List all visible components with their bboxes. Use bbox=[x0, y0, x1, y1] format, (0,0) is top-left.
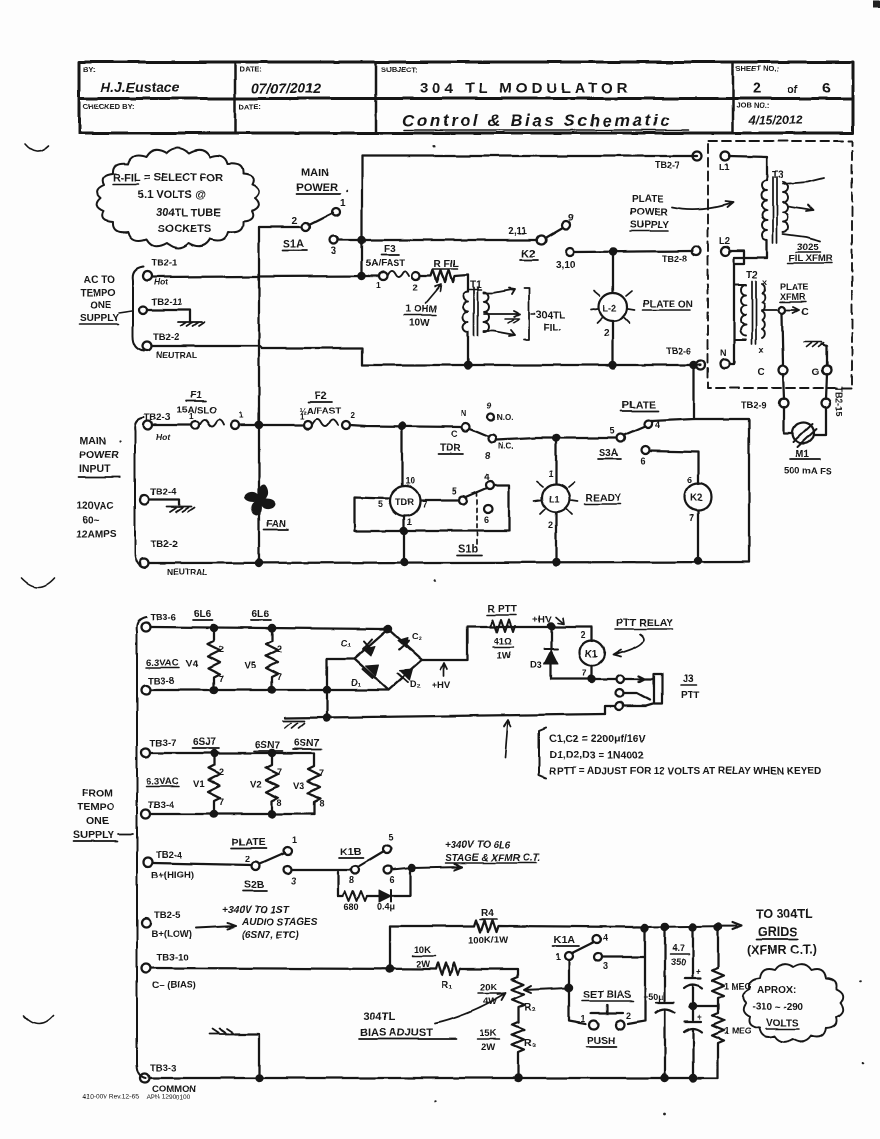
node TB2-6 terminal bbox=[666, 346, 706, 370]
node junction cap 50u bus bbox=[662, 1075, 668, 1081]
resistor R1 bbox=[412, 945, 460, 991]
label +340V to 1st audio bbox=[222, 905, 318, 941]
svg-text:FAN: FAN bbox=[266, 519, 286, 530]
svg-text:2: 2 bbox=[350, 411, 355, 420]
svg-text:10W: 10W bbox=[409, 318, 430, 329]
node junction L1 branch bbox=[553, 435, 559, 441]
svg-text:D3: D3 bbox=[530, 660, 542, 671]
svg-text:+HV: +HV bbox=[432, 680, 451, 691]
node junction V2 bottom bbox=[269, 811, 275, 817]
node junction caps 4.7 bbox=[690, 924, 696, 930]
node junction L2 bottom bbox=[610, 362, 616, 368]
svg-text:-310 ~ -290: -310 ~ -290 bbox=[752, 1002, 804, 1013]
wire TB2-3 to F1 bbox=[153, 424, 191, 426]
node junction L1/neutral bbox=[553, 559, 559, 565]
wire TDR-1 down bbox=[403, 516, 405, 562]
wire TB2-1 hot to F3 bbox=[152, 276, 379, 277]
svg-text:304TL: 304TL bbox=[536, 310, 565, 321]
svg-text:ONE: ONE bbox=[90, 300, 112, 311]
svg-text:6SN7: 6SN7 bbox=[255, 740, 280, 751]
svg-text:½A/FAST: ½A/FAST bbox=[299, 406, 341, 417]
svg-text:9: 9 bbox=[487, 402, 492, 411]
svg-text:TB2-9: TB2-9 bbox=[741, 400, 766, 410]
svg-text:4: 4 bbox=[603, 933, 608, 943]
ground (TB2-4) bbox=[167, 507, 194, 512]
svg-text:6SN7: 6SN7 bbox=[294, 738, 319, 749]
wire T2 CT down to C terminal bbox=[782, 314, 783, 365]
node junction bleeder top bbox=[715, 924, 721, 930]
label plate xfmr bbox=[780, 282, 809, 302]
wire bridge +HV output bbox=[422, 627, 592, 660]
svg-text:2: 2 bbox=[277, 644, 282, 654]
node TB2-5 terminal (B+ low) bbox=[142, 910, 192, 940]
node junction T1 bottom rail bbox=[465, 362, 471, 368]
svg-text:Control & Bias Schematic: Control & Bias Schematic bbox=[402, 111, 672, 130]
svg-text:7: 7 bbox=[319, 768, 324, 778]
svg-text:1: 1 bbox=[300, 412, 305, 421]
svg-text:TB2-15: TB2-15 bbox=[834, 386, 844, 416]
wire heater top rail bbox=[151, 627, 388, 629]
node junction bridge top bbox=[385, 626, 391, 632]
wire L2 terminal down to T2 bbox=[729, 251, 744, 264]
svg-text:TB2-8: TB2-8 bbox=[662, 254, 687, 264]
node junction V1 top bbox=[211, 750, 217, 756]
node TB3-7 terminal bbox=[142, 738, 177, 758]
wire cap/bleeder tie bbox=[693, 1005, 718, 1007]
wire F1 to F2 bbox=[239, 424, 304, 426]
svg-text:5A/FAST: 5A/FAST bbox=[366, 258, 405, 269]
svg-text:8: 8 bbox=[349, 875, 354, 885]
relay contacts K1A bbox=[553, 933, 608, 971]
svg-text:TB2-5: TB2-5 bbox=[154, 910, 181, 921]
svg-text:C₂: C₂ bbox=[412, 632, 423, 642]
arrow TB2-5 bbox=[196, 923, 236, 929]
capacitor C2 bbox=[399, 641, 410, 650]
fuse F2 bbox=[299, 391, 355, 429]
label from tempo one supply bbox=[73, 787, 114, 841]
capacitor 4.7/350 (upper) bbox=[670, 927, 702, 1020]
svg-text:120VAC: 120VAC bbox=[77, 501, 114, 512]
svg-text:NEUTRAL: NEUTRAL bbox=[167, 567, 208, 577]
svg-text:PLATE: PLATE bbox=[780, 282, 809, 292]
transformer T1 bbox=[463, 275, 565, 365]
resistor R3 15K bbox=[477, 1022, 536, 1078]
wire TB2-11 to ground bbox=[147, 310, 190, 321]
svg-text:R4: R4 bbox=[481, 908, 494, 919]
svg-text:FIL.: FIL. bbox=[543, 322, 561, 333]
note cloud (R-FIL select) bbox=[97, 148, 259, 248]
wire bottom rail (neutral to TB2-6) bbox=[362, 364, 701, 366]
svg-text:+340V TO 6L6: +340V TO 6L6 bbox=[445, 840, 511, 851]
svg-text:NEUTRAL: NEUTRAL bbox=[156, 350, 197, 360]
capacitor 4.7/350 (lower) bbox=[684, 1012, 702, 1078]
svg-text:TB2-6: TB2-6 bbox=[666, 346, 691, 356]
label 304TL bias adjust bbox=[360, 1011, 433, 1039]
svg-text:PTT RELAY: PTT RELAY bbox=[616, 617, 673, 629]
svg-text:2,11: 2,11 bbox=[508, 226, 527, 237]
svg-text:L1: L1 bbox=[549, 494, 560, 504]
wire ground to G terminal bbox=[822, 344, 827, 365]
wire S2B to K1B bbox=[291, 869, 351, 871]
svg-text:1: 1 bbox=[239, 411, 244, 420]
node junction L2 branch bbox=[610, 249, 616, 255]
svg-text:SUPPLY: SUPPLY bbox=[80, 313, 119, 324]
svg-text:1W: 1W bbox=[497, 650, 511, 661]
node TB3-4 terminal bbox=[142, 800, 176, 819]
node junction D3 tap bbox=[548, 623, 554, 629]
node TB2-8 terminal bbox=[662, 247, 701, 265]
resistor R4 bbox=[390, 908, 644, 946]
svg-text:POWER: POWER bbox=[296, 182, 338, 194]
svg-text:6: 6 bbox=[390, 875, 395, 885]
ground (TB2-11) bbox=[178, 322, 205, 326]
timer TDR coil bbox=[378, 426, 427, 527]
node TB3-3 terminal bbox=[141, 1063, 197, 1095]
svg-text:8: 8 bbox=[485, 451, 490, 461]
svg-text:C₁: C₁ bbox=[341, 638, 351, 648]
diode D3 bbox=[530, 626, 558, 679]
svg-text:1 MEG: 1 MEG bbox=[724, 1026, 752, 1036]
svg-text:1: 1 bbox=[581, 1014, 586, 1024]
brace TB3 terminals bbox=[137, 617, 146, 1078]
wire L1 to T3 bbox=[729, 156, 767, 180]
potentiometer R2 20K bbox=[478, 977, 568, 1022]
svg-text:TB2-3: TB2-3 bbox=[144, 412, 170, 423]
wire heater bottom rail bbox=[151, 689, 388, 691]
svg-text:K1B: K1B bbox=[340, 846, 361, 858]
svg-text:R₃: R₃ bbox=[524, 1038, 536, 1049]
svg-text:1 OHM: 1 OHM bbox=[405, 304, 437, 315]
svg-text:2: 2 bbox=[292, 216, 298, 227]
svg-text:VOLTS: VOLTS bbox=[766, 1018, 799, 1029]
svg-text:TB2-7: TB2-7 bbox=[655, 160, 680, 170]
wire K1B to +340V arrow bbox=[392, 864, 462, 870]
node junction V4 top bbox=[211, 625, 217, 631]
node junction K2/neutral bbox=[695, 558, 701, 564]
svg-text:8: 8 bbox=[319, 799, 324, 809]
svg-text:6: 6 bbox=[484, 515, 489, 525]
label plate power supply bbox=[630, 194, 669, 231]
svg-text:7: 7 bbox=[277, 767, 282, 777]
wire common line with ground bbox=[285, 714, 605, 718]
svg-text:6L6: 6L6 bbox=[252, 609, 270, 620]
node junction hot/vertical bbox=[359, 273, 365, 279]
svg-text:N.C.: N.C. bbox=[498, 442, 514, 451]
transformer T2 (plate xfmr) bbox=[734, 270, 808, 355]
svg-text:SUBJECT:: SUBJECT: bbox=[381, 65, 418, 74]
ground (heater common) bbox=[283, 721, 305, 728]
title block frame bbox=[79, 62, 853, 133]
switch S2B (plate) bbox=[231, 835, 297, 891]
svg-text:JOB NO.:: JOB NO.: bbox=[736, 101, 769, 110]
wire K1A-1 down to push button bbox=[569, 960, 586, 1024]
svg-text:Hot: Hot bbox=[156, 432, 171, 442]
svg-text:SHEET NO.:: SHEET NO.: bbox=[736, 64, 779, 73]
transformer T3 bbox=[762, 170, 833, 264]
node junction caps bus bbox=[690, 1075, 696, 1081]
wire TB3-10 to R1 bbox=[151, 968, 436, 969]
wire TB2-4 to S2B bbox=[153, 863, 252, 865]
svg-text:TB2-2: TB2-2 bbox=[153, 332, 179, 343]
svg-text:6: 6 bbox=[640, 456, 645, 466]
svg-text:H.J.Eustace: H.J.Eustace bbox=[100, 79, 180, 95]
tube heater V5 bbox=[244, 628, 282, 690]
svg-text:N: N bbox=[720, 348, 727, 358]
svg-text:SOCKETS: SOCKETS bbox=[158, 223, 211, 235]
svg-text:N: N bbox=[461, 409, 467, 418]
wire main vertical (S1A down to neutral bus) bbox=[258, 227, 260, 563]
svg-text:K1A: K1A bbox=[554, 934, 575, 946]
svg-text:R PTT: R PTT bbox=[488, 604, 517, 615]
svg-text:F2: F2 bbox=[315, 391, 327, 402]
lamp L1 ready bbox=[534, 438, 578, 561]
node TB2-9 terminal bbox=[741, 399, 789, 411]
svg-text:2: 2 bbox=[753, 80, 761, 97]
svg-text:S1A: S1A bbox=[283, 238, 304, 250]
node TB2-1 terminal bbox=[143, 258, 179, 287]
svg-text:TO 304TL: TO 304TL bbox=[756, 907, 813, 921]
label +340V to 6L6 bbox=[445, 840, 541, 864]
node junction rail/S3A riser bbox=[691, 362, 697, 368]
svg-text:N.O.: N.O. bbox=[497, 413, 513, 422]
svg-text:2: 2 bbox=[413, 282, 418, 292]
node N terminal bbox=[720, 348, 730, 369]
svg-text:1: 1 bbox=[189, 412, 194, 421]
wire K1A-3 to rail riser bbox=[602, 928, 645, 957]
node TB3-10 terminal (C- bias) bbox=[142, 952, 196, 991]
svg-text:500 mA FS: 500 mA FS bbox=[784, 466, 832, 477]
svg-text:1: 1 bbox=[548, 469, 553, 479]
node junction fan vertical bbox=[256, 422, 262, 428]
svg-text:1: 1 bbox=[407, 517, 412, 527]
hole punch arc bottom left bbox=[24, 1016, 53, 1024]
node TB2-2 terminal (top) bbox=[143, 332, 197, 360]
svg-text:5: 5 bbox=[610, 426, 615, 436]
node L2 terminal bbox=[719, 236, 730, 256]
wire G to TB2-15 bbox=[826, 374, 827, 399]
svg-text:PLATE: PLATE bbox=[632, 194, 664, 205]
node junction R4 riser bbox=[387, 966, 393, 972]
svg-text:2: 2 bbox=[219, 767, 224, 777]
svg-text:C: C bbox=[451, 429, 458, 439]
svg-text:07/07/2012: 07/07/2012 bbox=[251, 80, 321, 96]
wire TB2-2 neutral to rail corner bbox=[152, 346, 362, 365]
wire D3 return to K1-7 and J3 tip bbox=[551, 678, 616, 680]
svg-text:5: 5 bbox=[378, 499, 383, 509]
underline under subject title bbox=[404, 129, 688, 131]
capacitor +50u bbox=[643, 927, 675, 1078]
label +HV arrow bbox=[432, 663, 451, 691]
svg-text:APROX:: APROX: bbox=[757, 985, 796, 996]
svg-text:TEMPO: TEMPO bbox=[80, 288, 116, 299]
wire rail K1A riser to arrow bbox=[644, 923, 741, 930]
svg-text:+: + bbox=[696, 966, 701, 976]
node junction V5 bottom bbox=[269, 687, 275, 693]
svg-text:BIAS ADJUST: BIAS ADJUST bbox=[360, 1027, 433, 1039]
svg-text:C1,C2 = 2200μf/16V: C1,C2 = 2200μf/16V bbox=[549, 733, 646, 745]
svg-text:0.4μ: 0.4μ bbox=[377, 902, 395, 912]
svg-text:READY: READY bbox=[586, 493, 621, 504]
wire S1A-2 to main vertical bbox=[259, 226, 302, 228]
wire neutral bus bbox=[149, 562, 749, 563]
svg-text:(XFMR C.T.): (XFMR C.T.) bbox=[747, 943, 816, 957]
wire heater bottom rail (small tubes) bbox=[151, 813, 314, 815]
node junction TDR bottom bbox=[401, 528, 407, 534]
wire R4 riser bbox=[389, 926, 391, 969]
svg-text:DATE:: DATE: bbox=[239, 102, 261, 111]
svg-text:L2: L2 bbox=[719, 236, 730, 246]
svg-text:304 TL MODULATOR: 304 TL MODULATOR bbox=[420, 80, 632, 97]
svg-text:PLATE ON: PLATE ON bbox=[643, 299, 693, 310]
wire TDR-NC to plate switch bbox=[496, 438, 617, 440]
svg-text:100K/1W: 100K/1W bbox=[468, 935, 508, 946]
svg-text:K1: K1 bbox=[585, 649, 598, 660]
title block printed labels bbox=[83, 64, 779, 111]
svg-text:3,10: 3,10 bbox=[556, 260, 576, 271]
svg-text:TB3-3: TB3-3 bbox=[150, 1063, 176, 1074]
svg-text:5: 5 bbox=[452, 486, 457, 496]
T1 secondary leads bbox=[484, 288, 515, 294]
node junction fan/neutral bbox=[256, 560, 262, 566]
svg-text:1: 1 bbox=[292, 835, 297, 845]
node TB2-7 terminal bbox=[655, 152, 702, 171]
ground (common bus) bbox=[210, 1029, 259, 1078]
svg-text:2: 2 bbox=[626, 1011, 631, 1021]
svg-text:V2: V2 bbox=[250, 779, 262, 790]
node junction ground/bus bbox=[256, 1075, 262, 1081]
svg-text:V5: V5 bbox=[244, 660, 256, 671]
title block handwritten entries bbox=[100, 79, 830, 130]
svg-text:TB3-4: TB3-4 bbox=[148, 800, 175, 811]
svg-text:L1: L1 bbox=[719, 162, 730, 172]
svg-text:B+(LOW): B+(LOW) bbox=[151, 929, 192, 940]
svg-text:+50μ: +50μ bbox=[643, 992, 664, 1002]
resistor 1 MEG (lower) bbox=[712, 1006, 752, 1078]
svg-text:S2B: S2B bbox=[244, 879, 265, 891]
svg-text:GRIDS: GRIDS bbox=[758, 925, 798, 939]
svg-text:7: 7 bbox=[689, 513, 694, 523]
tube heater V4 bbox=[186, 628, 224, 690]
wire vertical to top rail and down to hot bbox=[361, 156, 363, 276]
node C terminal bbox=[757, 366, 788, 379]
svg-text:SUPPLY: SUPPLY bbox=[630, 220, 669, 231]
svg-text:K2: K2 bbox=[690, 493, 703, 504]
svg-text:TB2-2: TB2-2 bbox=[151, 539, 177, 550]
svg-text:TB2-1: TB2-1 bbox=[151, 258, 178, 269]
svg-text:15K: 15K bbox=[479, 1028, 497, 1039]
label +HV (relay supply) bbox=[533, 614, 564, 625]
resistor R-FIL bbox=[404, 259, 468, 329]
node junction V4 bottom bbox=[211, 687, 217, 693]
node L1 (plate xfmr) terminal bbox=[719, 152, 730, 173]
hole punch arc top left bbox=[25, 144, 49, 152]
svg-text:D₁: D₁ bbox=[351, 678, 361, 688]
svg-text:(6SN7, ETC): (6SN7, ETC) bbox=[242, 930, 300, 941]
brace main power input terminals bbox=[135, 417, 145, 568]
svg-text:R₁: R₁ bbox=[441, 980, 452, 991]
svg-text:6: 6 bbox=[687, 475, 692, 485]
svg-text:POWER: POWER bbox=[630, 207, 669, 218]
node junction S1A3/top-rail bbox=[359, 237, 365, 243]
svg-text:R-FIL = SELECT FOR: R-FIL = SELECT FOR bbox=[113, 172, 223, 184]
wire S1A-3 to junction bbox=[338, 239, 362, 241]
node TB2-3 terminal bbox=[144, 412, 172, 442]
svg-text:6SJ7: 6SJ7 bbox=[193, 737, 217, 748]
note bracket bbox=[539, 728, 546, 778]
tube heater V1 bbox=[193, 753, 224, 814]
svg-text:20K: 20K bbox=[480, 982, 498, 993]
wire N vertical bbox=[729, 258, 734, 364]
diode D2 bbox=[400, 669, 413, 680]
node TB2-15 terminal bbox=[822, 386, 845, 416]
svg-text:2: 2 bbox=[604, 328, 610, 339]
svg-text:TB3-8: TB3-8 bbox=[148, 676, 174, 687]
svg-text:5.1 VOLTS @: 5.1 VOLTS @ bbox=[138, 189, 206, 201]
svg-text:C– (BIAS): C– (BIAS) bbox=[152, 980, 196, 991]
svg-text:7: 7 bbox=[582, 668, 587, 678]
svg-text:INPUT: INPUT bbox=[79, 463, 111, 475]
svg-text:+: + bbox=[697, 1012, 702, 1022]
svg-text:CHECKED BY:: CHECKED BY: bbox=[83, 102, 135, 111]
svg-text:S3A: S3A bbox=[599, 448, 618, 459]
wire common bus bottom bbox=[150, 1077, 718, 1079]
snubber network 680 + 0.4u bbox=[338, 872, 410, 912]
fan motor bbox=[245, 485, 288, 530]
svg-text:2W: 2W bbox=[416, 959, 430, 970]
svg-text:15A/SLO: 15A/SLO bbox=[177, 405, 217, 416]
svg-text:ONE: ONE bbox=[86, 815, 109, 827]
label to 304TL grids bbox=[747, 907, 816, 957]
node G terminal bbox=[812, 366, 832, 379]
svg-text:2: 2 bbox=[548, 520, 553, 530]
node junction K1-7/D3 bbox=[589, 676, 595, 682]
wire S3A-4 up to TB2-6 rail bbox=[651, 365, 694, 421]
svg-text:T2: T2 bbox=[746, 270, 758, 281]
svg-text:680: 680 bbox=[344, 902, 359, 912]
svg-text:DATE:: DATE: bbox=[239, 65, 261, 74]
wire sleeve to common bbox=[605, 706, 615, 714]
svg-text:SET BIAS: SET BIAS bbox=[583, 989, 631, 1001]
relay contacts K2 (plate on) bbox=[508, 213, 576, 271]
svg-text:TB3-7: TB3-7 bbox=[150, 738, 176, 749]
svg-text:PTT: PTT bbox=[681, 690, 700, 701]
svg-text:R₂: R₂ bbox=[524, 1002, 536, 1013]
svg-text:410-00V Rev.12-65 APN 129: 410-00V Rev.12-65 APN 12900100 bbox=[83, 1094, 191, 1101]
node junction V5 top bbox=[269, 625, 275, 631]
svg-text:TB2-4: TB2-4 bbox=[156, 850, 183, 861]
svg-text:7: 7 bbox=[219, 797, 224, 807]
wire TDR-5 loop bbox=[354, 497, 402, 531]
svg-text:POWER: POWER bbox=[79, 449, 119, 461]
node junction V2 top bbox=[269, 750, 275, 756]
svg-text:L-2: L-2 bbox=[603, 303, 617, 313]
svg-text:PLATE: PLATE bbox=[622, 399, 656, 411]
label PLATE ON bbox=[643, 299, 693, 310]
svg-text:V4: V4 bbox=[186, 659, 198, 670]
node junction riser/rail bbox=[642, 925, 648, 931]
svg-text:PUSH: PUSH bbox=[587, 1036, 615, 1047]
svg-text:TB3-10: TB3-10 bbox=[157, 952, 189, 963]
node junction common line bbox=[324, 715, 330, 721]
note text C1 C2 values bbox=[549, 733, 821, 777]
wire TB2-4 to ground bbox=[149, 500, 179, 505]
svg-text:AUDIO STAGES: AUDIO STAGES bbox=[241, 917, 318, 928]
svg-text:3: 3 bbox=[291, 876, 296, 886]
svg-text:10K: 10K bbox=[414, 945, 432, 956]
svg-text:R PTT = ADJUST FOR 12 VOLTS AT: R PTT = ADJUST FOR 12 VOLTS AT RELAY WHE… bbox=[549, 766, 821, 777]
wire R1 to pot R2 bbox=[460, 969, 518, 977]
svg-text:1: 1 bbox=[340, 198, 346, 209]
